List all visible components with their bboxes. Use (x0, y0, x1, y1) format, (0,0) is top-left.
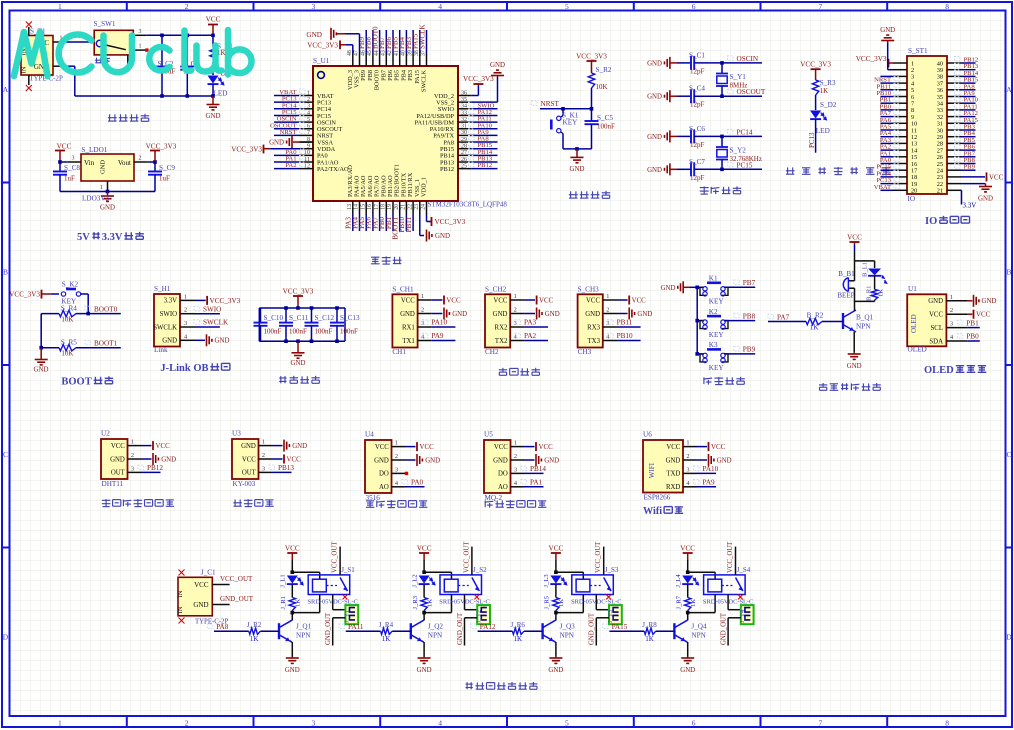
svg-text:KEY: KEY (709, 331, 725, 339)
ground GND U5 (524, 459, 535, 461)
relay contact X unit 4 (738, 595, 743, 600)
power VCC U3 (272, 458, 283, 460)
mcu pin 3 PC14 (299, 108, 313, 110)
svg-text:PB13: PB13 (278, 464, 294, 472)
svg-text:1K: 1K (810, 324, 819, 332)
svg-text:PA2: PA2 (524, 332, 537, 340)
connector S_ST1 pin 10 (893, 122, 907, 124)
svg-text:U2: U2 (101, 430, 110, 438)
mcu pin 34 SWIO (458, 108, 472, 110)
svg-text:GND: GND (241, 443, 256, 450)
caption indicator (786, 167, 795, 174)
mcu pin 1 VBAT (299, 95, 313, 97)
mcu pin 31 PA10/RX (458, 128, 472, 130)
svg-text:J_R1: J_R1 (280, 596, 287, 610)
connector S_H1 pin 4 GND (180, 339, 195, 341)
svg-text:PB12: PB12 (147, 464, 163, 472)
svg-text:TXD: TXD (666, 471, 680, 478)
svg-text:1K: 1K (558, 599, 565, 607)
svg-text:S_C7: S_C7 (689, 158, 705, 166)
mcu pin 12 PA2/TX/AO (299, 168, 313, 170)
display U1 pin 4 SDA (946, 340, 967, 342)
svg-text:VCC_3V3: VCC_3V3 (576, 53, 607, 61)
svg-text:16: 16 (367, 204, 373, 210)
net label PB13 (272, 471, 292, 473)
svg-text:PC14: PC14 (737, 128, 753, 136)
wire bottom rail power circuit (75, 95, 213, 97)
svg-text:SWCLK: SWCLK (418, 25, 426, 50)
mcu pin 13 PA3/RX/AO (352, 201, 354, 215)
svg-text:4: 4 (307, 110, 310, 116)
mcu pin 40 PB4 (405, 54, 407, 67)
module U6 pin 2 GND (683, 459, 697, 461)
pin 4 S_SW1 no-connect below (127, 55, 129, 67)
svg-text:GND: GND (161, 457, 176, 464)
svg-text:D: D (3, 632, 9, 641)
svg-text:21: 21 (937, 188, 943, 195)
svg-text:STM32F103C8T6_LQFP48: STM32F103C8T6_LQFP48 (428, 201, 508, 209)
ground GND relay unit 4 (687, 657, 689, 659)
svg-text:A: A (3, 85, 9, 94)
power VCC U2 (141, 445, 152, 447)
svg-text:2: 2 (686, 453, 689, 460)
svg-text:TX1: TX1 (402, 338, 414, 345)
ground GND at U1 pin1 (968, 300, 973, 302)
svg-text:OUT: OUT (242, 470, 257, 477)
svg-text:S_C10: S_C10 (264, 314, 284, 322)
svg-text:VCC: VCC (586, 297, 600, 304)
svg-text:VCC: VCC (929, 312, 943, 319)
logo letter u (197, 46, 222, 72)
connector S_ST1 pin 39 (947, 69, 961, 71)
svg-text:2: 2 (606, 307, 609, 314)
svg-text:13: 13 (347, 204, 353, 210)
svg-text:24: 24 (421, 204, 427, 210)
svg-text:2: 2 (185, 2, 189, 11)
svg-text:SWIO: SWIO (160, 311, 177, 318)
display U1 pin 3 SCL (946, 327, 967, 329)
svg-text:100nF: 100nF (340, 327, 358, 335)
svg-text:VCC_3V3: VCC_3V3 (283, 288, 314, 296)
ground GND relay unit 2 (423, 657, 425, 659)
svg-text:KEY: KEY (709, 364, 725, 372)
net label PA0 (405, 486, 425, 488)
svg-text:4: 4 (438, 2, 442, 11)
svg-text:J_L3: J_L3 (543, 574, 550, 588)
no-connect X below S_T1 (28, 75, 30, 85)
mcu pin 5 OSCIN (299, 121, 313, 123)
svg-text:GND: GND (400, 311, 415, 318)
svg-text:J_T4: J_T4 (739, 609, 746, 623)
svg-text:GND: GND (647, 60, 662, 67)
svg-text:VCC_OUT: VCC_OUT (463, 541, 470, 573)
svg-text:J_R2: J_R2 (247, 621, 262, 629)
svg-text:LED: LED (816, 127, 830, 135)
connector S_ST1 pin 27 (947, 149, 961, 151)
svg-text:21: 21 (401, 204, 407, 210)
svg-text:VCC: VCC (417, 545, 432, 553)
svg-text:MQ-2: MQ-2 (485, 494, 503, 502)
module U2 pin 2 GND (128, 458, 142, 460)
svg-text:C: C (1006, 450, 1011, 459)
svg-text:GND: GND (647, 167, 662, 174)
svg-text:7: 7 (819, 719, 823, 728)
resistor S_R5 (40, 314, 42, 348)
svg-text:PB1: PB1 (966, 319, 979, 327)
svg-text:1: 1 (421, 293, 424, 300)
svg-text:VCC: VCC (847, 234, 862, 242)
svg-text:SRD-05VDC-SL-C: SRD-05VDC-SL-C (439, 599, 489, 606)
net label PA10 (697, 472, 717, 474)
svg-text:SWIO: SWIO (203, 305, 221, 313)
svg-text:1: 1 (514, 293, 517, 300)
svg-text:PB11: PB11 (617, 319, 633, 327)
svg-text:GND: GND (544, 458, 559, 465)
svg-text:CH1: CH1 (392, 348, 406, 356)
svg-text:J_R4: J_R4 (379, 621, 394, 629)
ground GND power circuit (212, 96, 214, 105)
caption module at 365 (366, 501, 374, 507)
svg-text:SWCLK: SWCLK (153, 324, 177, 331)
ground GND U6 (697, 459, 708, 461)
mcu pin 15 PA5/AO (365, 201, 367, 215)
connector S_CH3 pin 3 RX3 (603, 326, 617, 328)
svg-text:Vout: Vout (118, 159, 131, 167)
svg-text:GND: GND (215, 338, 230, 345)
svg-text:3: 3 (395, 466, 398, 473)
logo letter c (149, 47, 169, 71)
mcu pin 18 PB0/AO (385, 201, 387, 215)
svg-text:IN: IN (21, 66, 28, 73)
svg-text:26: 26 (461, 157, 467, 163)
svg-text:B_Q1: B_Q1 (856, 314, 874, 322)
svg-text:PA8: PA8 (216, 623, 229, 631)
mcu pin 24 VDD_1 (426, 201, 428, 215)
connector S_ST1 pin 36 (947, 89, 961, 91)
wire 3.3V at ST1 pin21 (960, 189, 963, 191)
mcu pin 44 BOOT0 (379, 54, 381, 67)
svg-text:2: 2 (131, 452, 134, 459)
LED J_L4 (682, 576, 693, 584)
svg-text:B_L1: B_L1 (862, 262, 869, 277)
svg-text:J_T2: J_T2 (475, 610, 482, 623)
svg-text:BOOT1: BOOT1 (94, 339, 118, 347)
connector S_CH1 pin 3 RX1 (418, 326, 432, 328)
svg-text:BOOT0: BOOT0 (94, 305, 118, 313)
connector S_CH3 pin 4 TX3 (603, 340, 617, 342)
mcu pin 35 VSS_2 (458, 101, 472, 103)
svg-text:S_C9: S_C9 (159, 164, 175, 172)
svg-text:GND: GND (269, 140, 284, 147)
transistor J_Q3 NPN (541, 623, 543, 639)
svg-text:12pF: 12pF (690, 67, 705, 75)
ground GND top of ST1 pin2 (888, 69, 893, 71)
svg-text:J_Q3: J_Q3 (560, 623, 576, 631)
svg-text:1: 1 (950, 294, 953, 301)
svg-text:VCC: VCC (194, 581, 209, 589)
svg-text:J_S1: J_S1 (341, 566, 355, 574)
svg-text:100nF: 100nF (289, 327, 307, 335)
caption jingzhen dianlu (700, 186, 709, 194)
module U4 pin 4 AO (392, 486, 406, 488)
svg-text:1K: 1K (295, 599, 302, 607)
svg-text:S_C12: S_C12 (315, 314, 335, 322)
svg-text:7: 7 (307, 130, 310, 136)
svg-text:3: 3 (307, 104, 310, 110)
power VCC at ST1 pin23 (961, 176, 985, 178)
svg-text:VCC: VCC (539, 298, 554, 305)
svg-text:GND_OUT: GND_OUT (720, 612, 727, 645)
svg-text:1K: 1K (645, 635, 654, 643)
resistor S_R1 (212, 35, 214, 47)
net label PA3 (524, 326, 548, 328)
transistor J_Q2 NPN (410, 623, 412, 639)
mcu pin 37 SWCLK (426, 54, 428, 67)
mcu pin 36 VDD_2 (458, 95, 472, 97)
svg-text:2: 2 (514, 307, 517, 314)
mcu pin 22 PB11/RX (412, 201, 414, 215)
svg-text:36: 36 (461, 90, 467, 96)
svg-text:PA3: PA3 (524, 319, 537, 327)
svg-text:VCC_3V3: VCC_3V3 (856, 55, 887, 63)
power VCC at U1 pin2 (968, 313, 973, 315)
wire relay NO to terminal unit 4 (727, 595, 729, 610)
svg-text:NPN: NPN (691, 632, 706, 640)
svg-text:CH3: CH3 (578, 348, 592, 356)
svg-text:PA7: PA7 (777, 313, 790, 321)
power VCC_3V3 bottom of mcu pin24 VDD_1 (426, 215, 428, 222)
mcu pin 33 PA12/USB/DP (458, 114, 472, 116)
connector S_ST1 pin 16 (893, 163, 907, 165)
capacitor S_C10 (260, 308, 262, 323)
svg-text:U5: U5 (484, 431, 493, 439)
svg-text:14: 14 (354, 204, 360, 210)
logo letter b (228, 30, 251, 75)
connector S_ST1 pin 23 (947, 176, 961, 178)
svg-text:J_L2: J_L2 (411, 574, 418, 587)
capacitor S_C6 (677, 135, 691, 137)
svg-text:17: 17 (374, 204, 380, 210)
svg-text:GND: GND (292, 443, 307, 450)
svg-text:TX2: TX2 (495, 338, 508, 345)
svg-text:S_CH2: S_CH2 (485, 286, 507, 294)
svg-text:IO: IO (925, 216, 937, 227)
svg-text:VBAT: VBAT (874, 184, 891, 191)
svg-text:PA12: PA12 (480, 623, 496, 631)
svg-text:PB12: PB12 (440, 166, 454, 173)
pin 1 S_SW1 no-connect (133, 49, 146, 51)
svg-text:S_Y1: S_Y1 (730, 73, 747, 81)
svg-text:C: C (3, 450, 8, 459)
svg-text:VCC_3V3: VCC_3V3 (146, 142, 177, 150)
svg-text:NRST: NRST (541, 100, 560, 108)
connector S_ST1 pin 31 (947, 122, 961, 124)
wire relay top unit 1 (292, 571, 319, 573)
svg-text:1K: 1K (514, 635, 523, 643)
caption relay control (466, 682, 473, 689)
svg-text:12pF: 12pF (690, 101, 705, 109)
capacitor S_C9 (154, 162, 156, 172)
wire relay common VCC_OUT unit 2 (471, 547, 473, 575)
capacitor S_C1 (677, 62, 691, 64)
svg-text:U1: U1 (908, 285, 917, 293)
svg-text:2: 2 (514, 453, 517, 460)
pushbutton S_K1 KEY (562, 109, 564, 116)
net label PB1 (968, 327, 980, 329)
svg-text:GND: GND (847, 363, 862, 370)
power VCC S_CH1 (432, 299, 443, 301)
wire reset bottom (563, 148, 592, 150)
mcu pin 23 VSS_1 (419, 201, 421, 215)
svg-text:PA9: PA9 (431, 332, 444, 340)
connector S_CH1 pin 2 GND (418, 313, 432, 315)
svg-text:J_R6: J_R6 (511, 621, 526, 629)
svg-text:PB14: PB14 (530, 465, 546, 473)
svg-text:1: 1 (514, 440, 517, 447)
module U2 pin 3 OUT (128, 471, 142, 473)
svg-text:S_D2: S_D2 (820, 101, 837, 109)
connector S_ST1 pin 30 (947, 129, 961, 131)
svg-text:NPN: NPN (856, 323, 871, 331)
svg-text:SRD-05VDC-SL-C: SRD-05VDC-SL-C (703, 599, 753, 606)
connector S_CH2 pin 3 RX2 (510, 326, 524, 328)
svg-text:S_ST1: S_ST1 (908, 47, 928, 55)
resistor B_R2 (806, 318, 822, 324)
power VCC_3V3 at H1 pin1 (195, 299, 206, 301)
module U5 pin 1 VCC (511, 446, 525, 448)
mcu pin 45 PB8 (372, 54, 374, 67)
svg-text:2: 2 (262, 452, 265, 459)
svg-text:1: 1 (606, 293, 609, 300)
ground GND alarm (853, 353, 855, 354)
pushbutton K1 KEY (695, 286, 699, 290)
mcu pin 28 PB15 (458, 148, 472, 150)
svg-text:S_C5: S_C5 (597, 114, 613, 122)
svg-text:S_R2: S_R2 (596, 66, 612, 74)
mcu pin 19 PB1/AO (392, 201, 394, 215)
svg-text:VCC: VCC (989, 174, 1004, 181)
svg-text:1: 1 (131, 439, 134, 446)
LED J_L3 (550, 576, 561, 584)
net label PB0 (968, 340, 980, 342)
svg-text:VCC: VCC (711, 444, 726, 451)
svg-text:GND: GND (452, 311, 467, 318)
resistor S_R3 (812, 80, 818, 95)
svg-text:A: A (1006, 85, 1012, 94)
svg-text:GND: GND (647, 94, 662, 101)
svg-text:GND: GND (982, 298, 997, 305)
svg-text:WIFI: WIFI (648, 462, 656, 478)
svg-text:PA9: PA9 (703, 479, 716, 487)
svg-text:15: 15 (360, 204, 366, 210)
svg-text:J_R8: J_R8 (642, 621, 657, 629)
no-connect X J_C1 top (179, 570, 185, 576)
connector S_CH1 pin 4 TX1 (418, 340, 432, 342)
ground GND at H1 pin4 (195, 339, 205, 341)
connector S_CH2 pin 1 VCC (510, 299, 524, 301)
caption module at 101 (102, 499, 111, 507)
svg-text:PB12: PB12 (478, 162, 493, 169)
module U5 pin 3 DO (511, 472, 525, 474)
svg-text:S_U1: S_U1 (313, 57, 330, 65)
svg-text:GND: GND (100, 205, 115, 212)
svg-text:K1: K1 (709, 275, 718, 283)
svg-text:Link: Link (154, 346, 168, 354)
svg-text:OLED: OLED (910, 314, 918, 333)
svg-text:3: 3 (139, 29, 142, 35)
svg-text:PA2/TX/AO: PA2/TX/AO (317, 166, 349, 173)
svg-text:1: 1 (395, 440, 398, 447)
connector S_ST1 pin 33 (947, 109, 961, 111)
connector S_H1 pin 1 3.3V (180, 299, 195, 301)
net label PA2 (524, 340, 548, 342)
ground GND at mcu pin8 VSSA (293, 141, 300, 143)
connector S_CH3 pin 1 VCC (603, 299, 617, 301)
svg-text:GND: GND (978, 196, 993, 203)
svg-text:GND: GND (34, 366, 49, 373)
svg-text:PB8: PB8 (743, 312, 756, 320)
svg-text:29: 29 (461, 137, 467, 143)
svg-text:1K: 1K (426, 599, 433, 607)
svg-text:GND: GND (417, 667, 432, 674)
svg-text:BEEP: BEEP (837, 292, 854, 300)
wire relay coil to collector unit 1 (319, 595, 321, 613)
svg-text:PB9: PB9 (743, 346, 756, 354)
pin 1 wire S_T1 to S_SW1 (53, 41, 68, 43)
logo letter C (59, 34, 92, 72)
svg-text:GND: GND (548, 667, 563, 674)
connector S_ST1 pin 8 (893, 109, 907, 111)
svg-text:J_S4: J_S4 (737, 566, 751, 574)
svg-text:VCC_3V3: VCC_3V3 (463, 75, 494, 83)
svg-text:GND: GND (493, 311, 508, 318)
wire relay common VCC_OUT unit 3 (603, 547, 605, 575)
connector S_ST1 pin 37 (947, 82, 961, 84)
wire relay coil to collector unit 2 (451, 595, 453, 613)
module U6 pin 1 VCC (683, 446, 697, 448)
svg-text:1: 1 (100, 185, 103, 191)
svg-text:1uF: 1uF (64, 175, 75, 183)
svg-text:VCC_3V3: VCC_3V3 (435, 218, 466, 226)
svg-text:12pF: 12pF (690, 174, 705, 182)
svg-text:S_C1: S_C1 (689, 51, 705, 59)
wire alarm top (855, 260, 875, 262)
connector S_ST1 pin 38 (947, 75, 961, 77)
svg-text:CH2: CH2 (485, 348, 499, 356)
svg-text:S_H1: S_H1 (154, 285, 171, 293)
connector S_CH3 pin 2 GND (603, 313, 617, 315)
svg-text:S_LDO1: S_LDO1 (81, 146, 107, 154)
svg-text:LDO3V3: LDO3V3 (82, 195, 110, 203)
ground GND at mcu pin35 VSS_2 (472, 101, 498, 103)
svg-text:GND: GND (100, 160, 107, 174)
svg-text:GND_OUT: GND_OUT (220, 595, 254, 603)
connector S_ST1 pin 20 (893, 189, 907, 191)
caption alarm (819, 383, 827, 390)
connector S_ST1 pin 11 (893, 129, 907, 131)
pushbutton K2 KEY (695, 319, 699, 323)
svg-text:RX2: RX2 (495, 324, 508, 331)
terminal J_T1 (345, 605, 358, 624)
mcu pin 41 PB5 (399, 54, 401, 67)
svg-text:J_R5: J_R5 (544, 595, 551, 609)
svg-text:5: 5 (565, 2, 569, 11)
svg-text:VCC: VCC (242, 456, 256, 463)
wire stub ST1 pin3 (881, 75, 894, 77)
svg-text:20: 20 (394, 204, 400, 210)
svg-text:GND: GND (570, 166, 585, 173)
svg-text:GND: GND (306, 31, 322, 39)
